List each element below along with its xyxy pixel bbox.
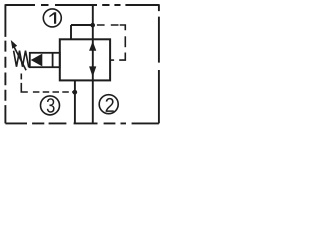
pilot line dashed (right side, from node to envelope right edge) — [97, 24, 119, 26]
drain line dashed vertical (below spring) — [20, 74, 22, 80]
adjustment arrow shaft (diagonal across spring) — [14, 47, 26, 70]
drain line dashed corner (solid L) — [21, 83, 28, 92]
flow arrow up (inside envelope) — [89, 41, 96, 51]
port 3 label — [47, 98, 55, 113]
junction node on horizontal branch — [90, 23, 95, 28]
pilot line dash at envelope right edge — [111, 59, 115, 61]
pilot box internal divider (seat wall) — [52, 53, 54, 67]
wire: horizontal branch at y=25 — [71, 24, 93, 26]
junction node on drain line — [72, 90, 77, 95]
poppet triangle (solid, pointing left) — [31, 54, 43, 67]
port 1 label — [49, 12, 56, 24]
boundary top edge (dashed cartridge envelope) — [5, 4, 159, 6]
wire: vertical branch down to valve top at x=71 — [70, 25, 72, 39]
pilot box (spring chamber) — [30, 53, 60, 67]
port 2 label — [106, 98, 114, 112]
flow arrow down (inside envelope) — [89, 66, 96, 77]
boundary right edge — [158, 4, 160, 123]
boundary bottom edge — [5, 122, 159, 124]
boundary left edge — [4, 4, 6, 123]
drain line dashed horizontal to node — [33, 91, 73, 93]
pilot line dashed corner (bottom, turning left) — [119, 53, 125, 61]
port 3 circle — [41, 96, 60, 115]
pilot line dashed vertical segment — [124, 36, 126, 47]
pilot line dashed corner (top right) — [120, 25, 126, 30]
spring (zigzag) — [14, 51, 30, 67]
port 1 circle — [43, 9, 61, 27]
wire: main vertical line port1-to-port2 at x=92.8 — [92, 5, 94, 123]
wire: drain vertical line to port3 at x=74.9 — [74, 80, 76, 123]
valve envelope (main square) — [60, 39, 110, 80]
port 2 circle — [99, 95, 118, 114]
adjustment arrow head — [11, 40, 17, 49]
